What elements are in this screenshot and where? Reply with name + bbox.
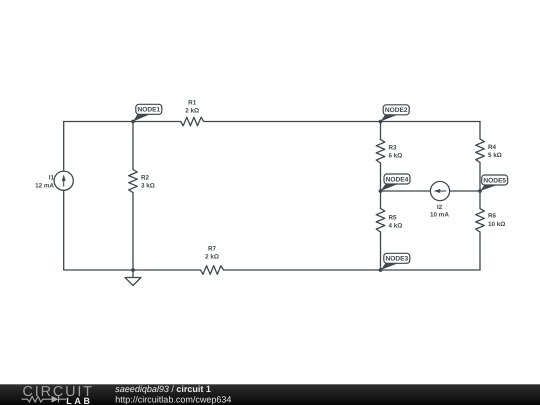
svg-text:I2: I2 <box>437 204 443 211</box>
svg-text:NODE2: NODE2 <box>385 107 408 114</box>
wire R2 branch bottom <box>132 193 134 271</box>
resistor R6 <box>476 209 485 233</box>
svg-text:R5: R5 <box>389 215 398 222</box>
node NODE1 <box>133 104 162 121</box>
svg-text:10 mA: 10 mA <box>430 212 449 219</box>
current source I1 <box>54 171 73 190</box>
svg-text:http://circuitlab.com/cwep634: http://circuitlab.com/cwep634 <box>115 394 231 404</box>
resistor R1 <box>181 117 204 126</box>
logo diode <box>52 396 59 403</box>
wire top from NODE1 area left <box>64 121 181 123</box>
label R6 <box>488 213 505 229</box>
svg-text:10 kΩ: 10 kΩ <box>488 221 505 228</box>
svg-text:R2: R2 <box>141 175 150 182</box>
wire mid-left vertical middle <box>380 163 382 209</box>
svg-text:I1: I1 <box>49 175 55 182</box>
wire mid-left vertical top <box>380 122 382 140</box>
wire R2 branch top <box>132 122 134 170</box>
svg-text:6 kΩ: 6 kΩ <box>389 153 403 160</box>
junction dots <box>131 120 482 272</box>
svg-text:NODE3: NODE3 <box>385 256 408 263</box>
wire bottom right <box>224 269 481 271</box>
node NODE5 <box>480 175 508 191</box>
svg-text:5 kΩ: 5 kΩ <box>488 152 502 159</box>
svg-text:12 mA: 12 mA <box>35 183 54 190</box>
resistor R2 <box>129 170 138 193</box>
label R4 <box>488 144 502 159</box>
node NODE3 <box>381 253 410 270</box>
wire middle horizontal right <box>450 190 480 192</box>
label R5 <box>389 215 403 230</box>
svg-text:NODE1: NODE1 <box>137 107 160 114</box>
wire right vertical top <box>479 122 481 140</box>
node NODE1 junction <box>131 120 135 124</box>
node NODE5 junction <box>478 189 482 193</box>
svg-text:R3: R3 <box>389 145 398 152</box>
svg-text:R7: R7 <box>208 246 217 253</box>
svg-text:R4: R4 <box>488 144 497 151</box>
wire mid-left vertical bottom <box>380 232 382 270</box>
svg-text:3 kΩ: 3 kΩ <box>141 183 155 190</box>
resistor R4 <box>476 139 485 163</box>
svg-text:NODE4: NODE4 <box>386 176 409 183</box>
I1 arrow <box>62 174 66 186</box>
ground <box>132 270 134 278</box>
logo zigzag wire <box>22 396 67 403</box>
svg-text:2 kΩ: 2 kΩ <box>205 254 219 261</box>
label I1 <box>35 175 54 190</box>
wire bottom left <box>64 269 201 271</box>
node NODE4 <box>381 174 411 191</box>
label R2 <box>141 175 155 190</box>
resistor R3 <box>376 140 385 164</box>
I2 arrow <box>434 189 447 193</box>
node NODE2 junction <box>379 120 383 124</box>
resistor R5 <box>376 209 385 233</box>
wire left vertical upper <box>63 122 65 172</box>
resistor R7 <box>201 266 224 275</box>
node NODE4 junction <box>379 189 383 193</box>
node NODE2 <box>381 105 410 122</box>
wire top right <box>204 121 480 123</box>
wire middle horizontal left <box>381 190 431 192</box>
current source I2 <box>430 181 449 200</box>
ground junction <box>131 268 135 272</box>
node NODE3 junction <box>379 268 383 272</box>
svg-text:saeediqbal93 / circuit 1: saeediqbal93 / circuit 1 <box>115 384 211 394</box>
wire left vertical lower <box>63 190 65 270</box>
svg-text:R6: R6 <box>488 213 497 220</box>
svg-text:2 kΩ: 2 kΩ <box>185 108 199 115</box>
label I2 <box>430 204 449 219</box>
wire right vertical middle <box>479 163 481 209</box>
svg-text:LAB: LAB <box>66 396 92 405</box>
svg-text:R1: R1 <box>188 100 197 107</box>
svg-text:NODE5: NODE5 <box>483 177 506 184</box>
label R3 <box>389 145 403 160</box>
label R1 <box>185 100 199 115</box>
label R7 <box>205 246 219 261</box>
wire right vertical bottom <box>479 232 481 270</box>
svg-text:4 kΩ: 4 kΩ <box>389 223 403 230</box>
